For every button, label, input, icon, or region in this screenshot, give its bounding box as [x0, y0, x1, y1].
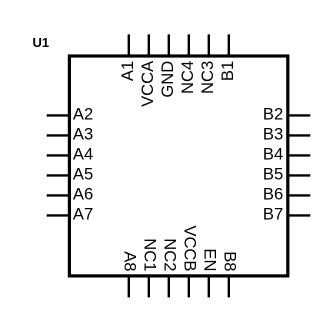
svg-text:NC3: NC3: [198, 61, 217, 94]
pin 2 wire VCCA (top): [148, 34, 150, 56]
pin wire NC1 (bottom): [148, 276, 150, 297]
pin wire B6 (right): [288, 194, 311, 196]
svg-text:U1: U1: [33, 35, 50, 50]
pin wire A3 (left): [47, 134, 70, 136]
svg-text:NC2: NC2: [161, 238, 180, 271]
pin wire B4 (right): [288, 154, 311, 156]
svg-text:A7: A7: [73, 205, 93, 224]
pin wire A7 (left): [47, 214, 70, 216]
pin wire A8 (bottom): [128, 276, 130, 297]
IC body U1: [69, 56, 287, 276]
pin 4 wire NC4 (top): [188, 34, 190, 56]
svg-text:A2: A2: [73, 105, 93, 124]
svg-text:A3: A3: [73, 125, 93, 144]
pin wire B7 (right): [288, 214, 311, 216]
pin wire VCCB (bottom): [188, 276, 190, 297]
pin wire A5 (left): [47, 174, 70, 176]
pin wire A2 (left): [47, 114, 70, 116]
svg-text:A5: A5: [73, 165, 93, 184]
pin wire A6 (left): [47, 194, 70, 196]
pin wire B5 (right): [288, 174, 311, 176]
svg-text:B2: B2: [263, 105, 283, 124]
svg-text:GND: GND: [158, 61, 177, 98]
svg-text:A1: A1: [118, 61, 137, 81]
svg-text:A4: A4: [73, 145, 93, 164]
svg-text:B4: B4: [263, 145, 283, 164]
pin wire EN (bottom): [208, 276, 210, 297]
svg-text:B6: B6: [263, 185, 283, 204]
svg-text:B3: B3: [263, 125, 283, 144]
svg-text:NC1: NC1: [141, 238, 160, 271]
svg-text:B1: B1: [218, 61, 237, 81]
svg-text:NC4: NC4: [178, 61, 197, 94]
pin wire NC2 (bottom): [168, 276, 170, 297]
pin wire B3 (right): [288, 134, 311, 136]
pin wire B2 (right): [288, 114, 311, 116]
pin 1 wire A1 (top): [128, 34, 130, 56]
svg-text:B8: B8: [221, 251, 240, 271]
svg-text:EN: EN: [201, 248, 220, 271]
pin 3 wire GND (top): [168, 34, 170, 56]
pin wire A4 (left): [47, 154, 70, 156]
svg-text:VCCA: VCCA: [138, 60, 157, 107]
pin 6 wire B1 (top): [228, 34, 230, 56]
svg-text:B5: B5: [263, 165, 283, 184]
pin 5 wire NC3 (top): [208, 34, 210, 56]
pin wire B8 (bottom): [228, 276, 230, 297]
svg-text:B7: B7: [263, 205, 283, 224]
svg-text:A6: A6: [73, 185, 93, 204]
svg-text:A8: A8: [121, 251, 140, 271]
svg-text:VCCB: VCCB: [181, 225, 200, 271]
